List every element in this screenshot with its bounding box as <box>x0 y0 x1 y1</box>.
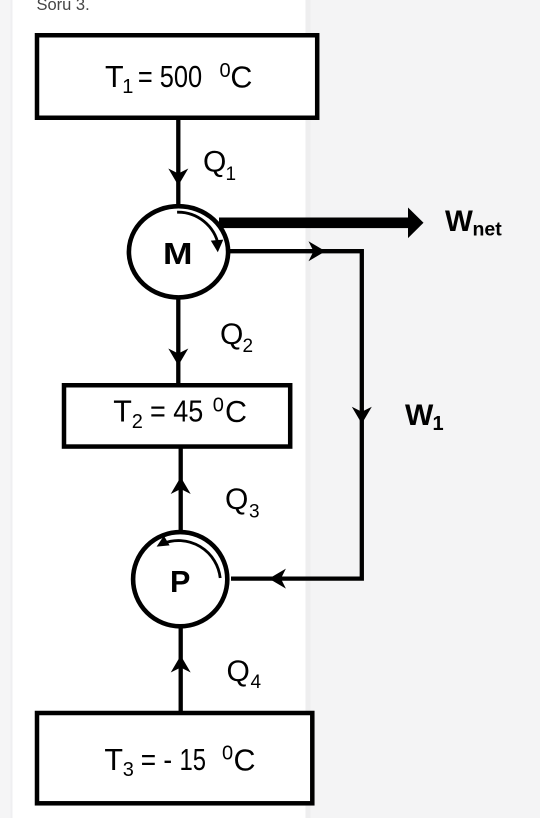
svg-text:1: 1 <box>226 164 237 185</box>
left gray margin <box>0 0 11 818</box>
svg-text:C: C <box>225 395 247 429</box>
wire: motor M to box T2 <box>176 298 180 385</box>
svg-text:1: 1 <box>433 413 444 435</box>
svg-text:Q: Q <box>203 146 226 179</box>
arrowhead into P (left) <box>269 569 286 589</box>
pump P circle <box>133 532 227 626</box>
svg-text:2: 2 <box>243 336 254 357</box>
wire: W1 feedback path M -> corner -> down -> P <box>227 251 362 578</box>
motor M circle <box>129 206 228 297</box>
svg-text:0: 0 <box>220 60 231 82</box>
svg-text:Q: Q <box>220 318 243 351</box>
svg-text:2: 2 <box>132 411 143 433</box>
arrowhead of P rotation arc <box>157 536 170 547</box>
svg-text:Q: Q <box>227 655 250 688</box>
box T2 reservoir <box>64 385 290 446</box>
label Wnet <box>445 205 502 241</box>
arrowhead W1 right (on top segment) <box>309 241 326 261</box>
svg-text:Soru 3.: Soru 3. <box>37 0 90 14</box>
label Q2 <box>220 318 253 357</box>
svg-text:1: 1 <box>122 76 133 98</box>
label T1 = 500 0C <box>105 60 252 98</box>
arrowhead W1 down (on vertical segment) <box>352 407 372 424</box>
svg-text:W: W <box>405 399 434 432</box>
box T3 reservoir <box>37 713 312 803</box>
svg-text:4: 4 <box>251 672 262 693</box>
wire: pump P to box T3 <box>179 626 183 713</box>
label W1 <box>405 399 444 435</box>
svg-text:15: 15 <box>180 743 207 777</box>
svg-text:M: M <box>163 236 193 271</box>
right gray margin <box>306 0 540 818</box>
arrowhead Q2 (down) <box>168 349 188 366</box>
wire: box T2 to pump P <box>179 448 183 532</box>
box T1 reservoir <box>37 35 317 118</box>
svg-text:T: T <box>105 60 124 94</box>
svg-text:P: P <box>170 565 190 599</box>
svg-text:Q: Q <box>225 483 248 516</box>
svg-text:0: 0 <box>213 395 224 417</box>
arrowhead Q3 (up) <box>171 477 191 494</box>
rotation arc in P (counter-clockwise) <box>163 541 220 578</box>
svg-text:0: 0 <box>222 743 233 765</box>
wire: box T1 to motor M <box>176 118 180 206</box>
arrowhead Q1 (down) <box>168 169 188 186</box>
svg-text:T: T <box>104 743 123 777</box>
thick Wnet output arrow <box>219 218 408 229</box>
svg-text:= -: = - <box>141 743 172 777</box>
arrowhead Q4 (up) <box>171 656 191 673</box>
svg-text:C: C <box>230 61 252 95</box>
arrowhead of M rotation arc <box>211 240 224 253</box>
label Q1 <box>203 146 236 186</box>
svg-text:T: T <box>113 395 132 429</box>
label T2 = 45 0C <box>113 395 247 434</box>
svg-text:W: W <box>445 205 473 238</box>
svg-text:= 500: = 500 <box>138 60 202 94</box>
label Q3 <box>225 483 260 523</box>
label Q4 <box>227 655 262 693</box>
svg-text:3: 3 <box>249 502 260 523</box>
svg-text:= 45: = 45 <box>150 395 203 429</box>
svg-text:C: C <box>234 744 256 778</box>
svg-text:net: net <box>473 219 503 241</box>
rotation arc in M (clockwise) <box>177 212 218 245</box>
label T3 = - 15 0C <box>104 743 255 782</box>
svg-text:3: 3 <box>123 759 134 781</box>
